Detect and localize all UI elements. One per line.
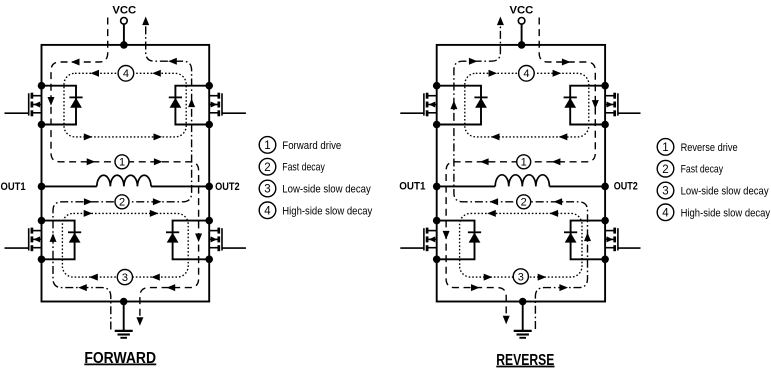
transistor left Q-bottom-right (209, 228, 246, 252)
current path 1 forward drive (dashed) left (51, 18, 199, 319)
node OUT1 right (433, 183, 441, 191)
node drain Q-bottom-left left (38, 217, 46, 225)
svg-text:1: 1 (264, 140, 270, 152)
svg-text:1: 1 (521, 157, 527, 169)
node source Q-top-right right (601, 121, 609, 129)
body diode right D-top-right (564, 86, 606, 125)
wire right H-bridge outer frame (437, 45, 605, 302)
transistor left Q-top-left (5, 93, 42, 117)
svg-text:1: 1 (662, 142, 668, 154)
node drain Q-top-left right (433, 82, 441, 90)
legend item 3 left (259, 180, 371, 197)
node VCC junction left (120, 41, 128, 49)
node source Q-top-right left (205, 121, 213, 129)
node OUT2 right (601, 183, 609, 191)
svg-text:4: 4 (123, 68, 129, 80)
svg-text:Low-side slow decay: Low-side slow decay (282, 184, 371, 196)
node marker 1 on path 1 left (115, 155, 129, 169)
svg-text:4: 4 (264, 205, 271, 217)
node marker 2 on path 2 right (517, 195, 531, 209)
node drain Q-bottom-right left (205, 217, 213, 225)
current path 3 low-side slow decay (dotted) left (62, 213, 188, 277)
legend item 1 right (657, 139, 737, 156)
node OUT2 left (205, 183, 213, 191)
transistor right Q-top-right (605, 93, 640, 117)
svg-text:4: 4 (662, 207, 669, 219)
node ground junction left (120, 298, 128, 306)
VCC terminal right (518, 18, 525, 45)
body diode right D-bottom-left (437, 221, 481, 260)
ground symbol right (514, 331, 532, 338)
body diode right D-top-left (437, 86, 488, 125)
node source Q-top-left left (38, 121, 46, 129)
title REVERSE (496, 352, 554, 369)
path 2 arrows right (450, 17, 591, 292)
svg-text:OUT2: OUT2 (215, 181, 240, 193)
svg-text:Forward drive: Forward drive (282, 140, 341, 152)
current path 4 high-side slow decay (dotted) right (465, 73, 589, 137)
node source Q-bottom-left left (38, 255, 46, 263)
path 3 arrows left (84, 210, 160, 281)
node drain Q-top-left left (38, 82, 46, 90)
node marker 3 on path 3 right (513, 269, 528, 284)
legend item 2 left (259, 158, 325, 175)
wire OUT1 segment right (437, 185, 496, 187)
transistor right Q-bottom-left (400, 228, 436, 252)
svg-text:2: 2 (264, 162, 270, 174)
svg-text:Reverse drive: Reverse drive (681, 142, 738, 154)
svg-text:3: 3 (264, 184, 270, 196)
title FORWARD (84, 350, 156, 367)
VCC terminal left (121, 18, 128, 45)
current path 3 low-side slow decay (dotted) right (460, 213, 582, 277)
legend item 2 right (657, 160, 723, 177)
wire left H-bridge outer frame (42, 45, 210, 302)
node source Q-bottom-right left (205, 255, 213, 263)
path 4 arrows right (489, 70, 568, 141)
body diode left D-bottom-left (42, 221, 82, 260)
legend item 3 right (657, 182, 769, 199)
svg-text:Low-side slow decay: Low-side slow decay (681, 186, 769, 198)
current path 1 reverse drive (dashed) right (446, 18, 595, 318)
wire OUT1 segment left (42, 185, 97, 187)
body diode left D-top-left (42, 86, 83, 125)
node marker 4 on path 4 left (118, 66, 134, 82)
wire OUT2 segment right (549, 185, 605, 187)
node OUT1 left (38, 183, 46, 191)
node drain Q-bottom-left right (433, 217, 441, 225)
svg-text:3: 3 (122, 272, 128, 284)
svg-text:2: 2 (662, 164, 668, 176)
svg-text:VCC: VCC (112, 4, 136, 16)
svg-text:1: 1 (119, 157, 125, 169)
node drain Q-top-right right (601, 82, 609, 90)
svg-text:3: 3 (518, 271, 524, 283)
svg-text:OUT2: OUT2 (614, 181, 638, 193)
body diode right D-bottom-right (564, 221, 605, 260)
svg-text:OUT1: OUT1 (1, 181, 26, 193)
legend item 4 left (259, 202, 373, 219)
node ground junction right (519, 298, 527, 306)
svg-text:High-side slow decay: High-side slow decay (681, 207, 771, 219)
node source Q-bottom-right right (601, 255, 609, 263)
node drain Q-top-right left (205, 82, 213, 90)
current path 2 fast decay (dash-dot) left (53, 25, 192, 330)
legend item 1 left (259, 137, 341, 154)
ground symbol left (115, 331, 133, 338)
node source Q-bottom-left right (433, 255, 441, 263)
path 3 arrows right (484, 210, 558, 281)
node marker 3 on path 3 left (117, 270, 132, 285)
node marker 1 on path 1 right (517, 155, 531, 169)
transistor right Q-top-left (400, 93, 436, 117)
transistor right Q-bottom-right (605, 228, 640, 252)
svg-text:VCC: VCC (509, 4, 533, 16)
svg-text:OUT1: OUT1 (399, 181, 425, 193)
path 1 arrows right (443, 59, 599, 325)
transistor left Q-bottom-left (5, 228, 42, 252)
node source Q-top-left right (433, 121, 441, 129)
svg-text:Fast decay: Fast decay (282, 162, 325, 174)
wire OUT2 segment left (151, 185, 209, 187)
body diode left D-top-right (169, 86, 209, 125)
svg-text:3: 3 (662, 186, 668, 198)
node VCC junction right (518, 41, 526, 49)
node drain Q-bottom-right right (601, 217, 609, 225)
legend item 4 right (657, 204, 770, 221)
svg-text:High-side slow decay: High-side slow decay (282, 205, 372, 217)
current path 4 high-side slow decay (dotted) left (64, 73, 186, 137)
current path 2 fast decay (dash-dot) right (454, 25, 588, 330)
svg-text:2: 2 (119, 197, 125, 209)
path 4 arrows left (84, 70, 162, 141)
node marker 4 on path 4 right (519, 66, 535, 82)
path 1 arrows left (48, 59, 203, 326)
svg-text:2: 2 (521, 197, 527, 209)
wire ground stem right (522, 302, 524, 331)
svg-text:Fast decay: Fast decay (681, 164, 724, 176)
svg-text:4: 4 (523, 68, 529, 80)
inductor motor winding left (97, 175, 151, 186)
wire ground stem left (123, 302, 125, 331)
node marker 2 on path 2 left (115, 195, 129, 209)
transistor left Q-top-right (209, 93, 246, 117)
body diode left D-bottom-right (166, 221, 209, 260)
path 2 arrows left (50, 17, 196, 292)
inductor motor winding right (495, 175, 549, 187)
